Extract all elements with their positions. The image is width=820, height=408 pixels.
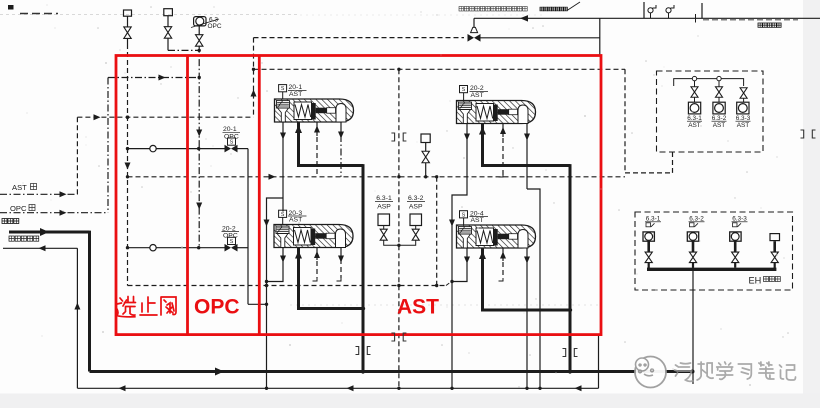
svg-text:AST: AST bbox=[289, 216, 302, 223]
svg-text:AST: AST bbox=[471, 217, 484, 224]
svg-text:OPC: OPC bbox=[194, 296, 240, 319]
svg-text:S: S bbox=[281, 86, 285, 92]
svg-text:AST: AST bbox=[397, 296, 439, 319]
svg-text:OPC: OPC bbox=[208, 23, 222, 30]
svg-text:OPC: OPC bbox=[224, 133, 239, 140]
svg-text:S: S bbox=[230, 239, 234, 245]
svg-text:AST: AST bbox=[688, 122, 701, 129]
svg-text:ASP: ASP bbox=[409, 203, 423, 210]
svg-text:S: S bbox=[462, 87, 466, 93]
svg-text:AST: AST bbox=[713, 122, 726, 129]
svg-text:S: S bbox=[230, 140, 234, 146]
svg-text:AST: AST bbox=[471, 92, 484, 99]
svg-text:AST: AST bbox=[289, 91, 302, 98]
svg-text:S: S bbox=[462, 212, 466, 218]
svg-text:OPC: OPC bbox=[10, 204, 27, 213]
svg-text:S: S bbox=[281, 212, 285, 218]
svg-text:AST: AST bbox=[737, 122, 750, 129]
svg-text:OPC: OPC bbox=[223, 233, 238, 240]
svg-text:EH: EH bbox=[749, 276, 762, 286]
svg-text:AST: AST bbox=[12, 183, 27, 192]
svg-text:ASP: ASP bbox=[377, 203, 391, 210]
